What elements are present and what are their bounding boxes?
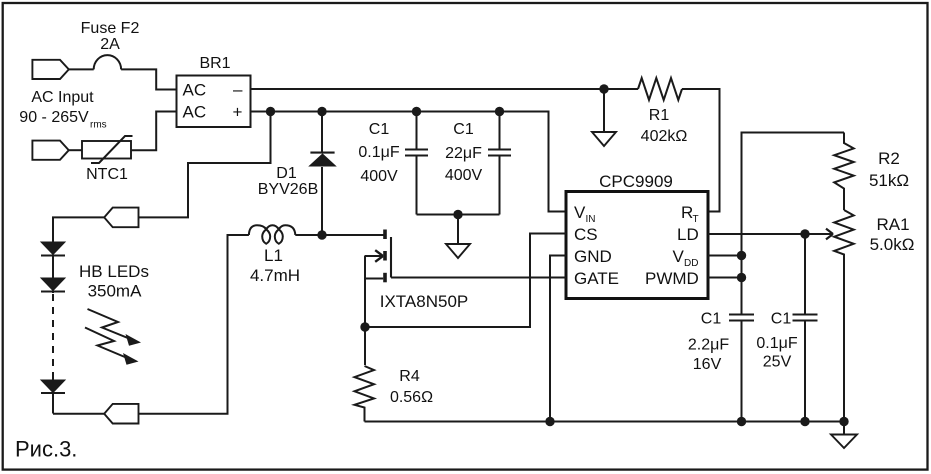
svg-text:IXTA8N50P: IXTA8N50P: [380, 292, 469, 311]
svg-text:+: +: [233, 103, 243, 122]
svg-text:–: –: [233, 80, 243, 99]
wire minus rail: [251, 88, 639, 90]
potentiometer RA1: [834, 210, 854, 422]
svg-text:IN: IN: [586, 214, 596, 225]
svg-text:0.1μF: 0.1μF: [358, 144, 399, 161]
connector J3 (LED+): [104, 208, 138, 228]
node: [800, 417, 809, 426]
wire source stub: [365, 278, 383, 280]
svg-text:R2: R2: [878, 149, 900, 168]
svg-text:2A: 2A: [100, 36, 120, 53]
svg-text:22μF: 22μF: [445, 145, 482, 162]
svg-text:V: V: [574, 203, 586, 222]
svg-text:HB LEDs: HB LEDs: [79, 262, 149, 281]
source bar: [383, 273, 387, 283]
svg-text:25V: 25V: [763, 354, 792, 371]
svg-text:16V: 16V: [693, 356, 722, 373]
capacitor C1b 22uF 400V: [499, 112, 501, 149]
svg-text:BYV26B: BYV26B: [258, 181, 318, 198]
connector J4 (LED-): [104, 404, 138, 424]
svg-text:5.0kΩ: 5.0kΩ: [870, 235, 915, 254]
svg-text:402kΩ: 402kΩ: [641, 128, 688, 145]
svg-text:C1: C1: [453, 121, 474, 138]
svg-text:C1: C1: [701, 311, 722, 328]
LED D4: [41, 380, 65, 393]
fuse F2: [94, 55, 121, 69]
wire GND pin down: [550, 256, 566, 422]
svg-text:AC: AC: [183, 81, 207, 100]
drain bar: [383, 230, 387, 240]
LED D2: [41, 242, 65, 255]
thermistor NTC1: [82, 141, 131, 159]
svg-text:CS: CS: [574, 225, 598, 244]
svg-text:PWMD: PWMD: [645, 269, 699, 288]
LED light arrow 2: [85, 328, 126, 358]
node: [495, 107, 504, 116]
svg-text:LD: LD: [677, 225, 699, 244]
svg-text:Рис.3.: Рис.3.: [15, 437, 77, 462]
wire LD to wiper: [708, 233, 833, 235]
svg-text:R4: R4: [399, 368, 420, 385]
diode D1: [321, 112, 323, 153]
capacitor C1d 0.1uF 25V: [804, 234, 806, 314]
node: [412, 107, 421, 116]
body arrow: [365, 255, 383, 257]
svg-text:AC Input: AC Input: [31, 89, 94, 106]
svg-text:2.2μF: 2.2μF: [688, 337, 729, 354]
LED light arrow 1: [88, 309, 130, 339]
node wiper junction: [800, 229, 809, 238]
svg-text:4.7mH: 4.7mH: [250, 266, 300, 285]
svg-text:CPC9909: CPC9909: [599, 172, 673, 191]
wire LED return to L1: [139, 235, 249, 414]
resistor R1: [638, 78, 682, 100]
svg-text:51kΩ: 51kΩ: [869, 171, 909, 190]
svg-text:0.1μF: 0.1μF: [756, 335, 797, 352]
svg-text:rms: rms: [90, 120, 107, 131]
node: [266, 107, 275, 116]
wire CS sense: [365, 234, 566, 328]
wire: [131, 112, 177, 151]
node ground junction: [599, 84, 608, 93]
svg-text:C1: C1: [771, 311, 792, 328]
svg-text:R1: R1: [649, 107, 670, 124]
wire PWMD: [708, 277, 742, 279]
node source/R4/CS junction: [360, 322, 369, 331]
node: [453, 210, 462, 219]
wire: [69, 68, 94, 70]
node: [839, 417, 848, 426]
ground: [457, 215, 459, 245]
inductor L1: [249, 225, 295, 244]
svg-text:AC: AC: [183, 103, 207, 122]
resistor R2: [834, 133, 854, 211]
svg-text:R: R: [681, 203, 693, 222]
svg-text:400V: 400V: [445, 167, 483, 184]
capacitor C1c 2.2uF 16V: [729, 315, 754, 321]
wire plus rail: [251, 112, 567, 212]
wire to RT: [682, 89, 720, 212]
svg-text:GATE: GATE: [574, 269, 619, 288]
connector J2 (AC neutral line): [32, 141, 68, 160]
svg-text:GND: GND: [574, 247, 612, 266]
svg-text:D1: D1: [276, 165, 297, 182]
svg-text:T: T: [693, 214, 699, 225]
svg-text:Fuse F2: Fuse F2: [81, 20, 140, 37]
svg-text:L1: L1: [264, 246, 283, 265]
wire cap commons: [417, 214, 500, 216]
node: [545, 417, 554, 426]
node: [317, 107, 326, 116]
svg-text:400V: 400V: [360, 168, 398, 185]
gate line: [390, 237, 392, 278]
capacitor C1a 0.1uF 400V: [416, 112, 418, 149]
svg-text:NTC1: NTC1: [86, 166, 128, 183]
body bar: [383, 251, 387, 261]
wire bottom rail: [365, 421, 845, 423]
svg-text:C1: C1: [369, 121, 390, 138]
wire: [53, 413, 104, 415]
svg-text:RA1: RA1: [876, 215, 909, 234]
wire gate to IC: [391, 277, 566, 279]
wire: [121, 69, 176, 89]
svg-text:V: V: [673, 247, 685, 266]
wire dashed (more LEDs): [52, 294, 54, 379]
LED D3: [41, 278, 65, 291]
wire to LED string top: [139, 112, 271, 218]
svg-text:90 - 265V: 90 - 265V: [19, 109, 89, 126]
bridge rectifier BR1: [177, 76, 251, 128]
svg-text:DD: DD: [684, 258, 698, 269]
svg-text:BR1: BR1: [199, 55, 230, 72]
connector J1 (AC input line): [32, 60, 68, 79]
svg-text:0.56Ω: 0.56Ω: [390, 389, 433, 406]
wire: [295, 234, 384, 236]
node drain junction: [317, 230, 326, 239]
wire source down: [364, 256, 366, 366]
wire: [69, 149, 82, 151]
wire: [53, 217, 104, 242]
ground: [603, 89, 605, 132]
node: [737, 417, 746, 426]
IC U1 CPC9909: [566, 192, 708, 299]
wire VDD net vertical + top to R2: [742, 133, 845, 314]
svg-text:350mA: 350mA: [88, 282, 143, 301]
resistor R4: [355, 366, 375, 422]
ground: [843, 422, 845, 435]
wire VDD: [708, 255, 742, 257]
